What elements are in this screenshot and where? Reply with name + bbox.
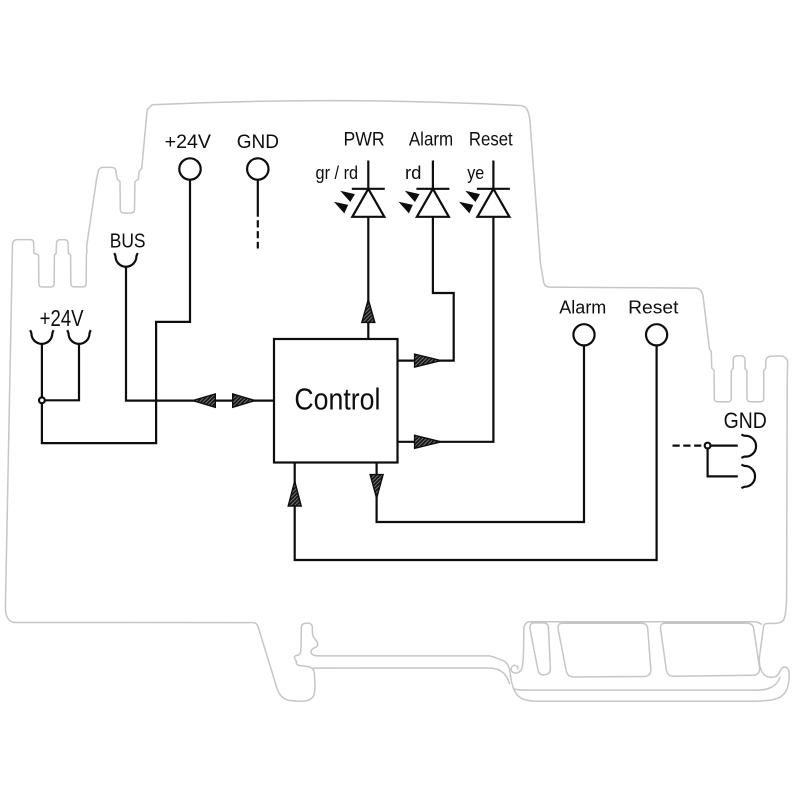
svg-text:BUS: BUS bbox=[110, 230, 146, 253]
svg-text:Alarm: Alarm bbox=[409, 129, 453, 150]
window A bbox=[530, 623, 551, 675]
wire GND right dashed bbox=[673, 445, 705, 447]
wire junction to left +24V terminal 1 bbox=[41, 344, 43, 398]
arrow right BUS bbox=[233, 394, 255, 407]
terminal arc BUS bbox=[114, 253, 138, 267]
arrow left BUS bbox=[193, 394, 215, 407]
svg-text:Reset: Reset bbox=[469, 128, 513, 149]
wire +24V top vertical bbox=[42, 180, 190, 443]
svg-text:Alarm: Alarm bbox=[559, 298, 606, 318]
svg-text:GND: GND bbox=[724, 409, 767, 434]
wire Reset LED path bbox=[492, 161, 494, 189]
svg-text:rd: rd bbox=[405, 162, 421, 183]
wire Reset terminal to Control bottom bbox=[295, 345, 657, 560]
bar bottom line under latch ledge bbox=[313, 668, 509, 684]
wire Alarm LED path bbox=[432, 161, 434, 189]
wire junction horizontal to terminal 2 bbox=[45, 344, 79, 401]
svg-text:PWR: PWR bbox=[344, 128, 385, 150]
foot block top edge with left spiral bbox=[511, 622, 761, 673]
wire GND top solid bbox=[257, 180, 259, 210]
window B bbox=[558, 623, 651, 677]
wire GND top dashed bbox=[257, 210, 259, 249]
arrow up on PWR line bbox=[362, 300, 375, 323]
LED PWR bbox=[334, 189, 385, 217]
window C bbox=[661, 623, 760, 676]
svg-text:Reset: Reset bbox=[628, 297, 679, 317]
svg-text:+24V: +24V bbox=[40, 306, 85, 332]
terminal arc +24V left 2 bbox=[67, 330, 91, 344]
skid inner top edge bbox=[514, 677, 780, 690]
svg-text:+24V: +24V bbox=[165, 131, 211, 153]
svg-text:ye: ye bbox=[467, 162, 484, 183]
LED Alarm bbox=[399, 189, 450, 217]
arrow down Alarm out bbox=[370, 475, 383, 499]
terminal circle GND top bbox=[247, 158, 268, 179]
arrow up Reset in bbox=[288, 481, 301, 506]
wire PWR LED anode down to Control bbox=[367, 161, 369, 189]
svg-text:gr / rd: gr / rd bbox=[316, 162, 358, 183]
wire Control bottom to Alarm terminal bbox=[377, 345, 584, 522]
control box U1 bbox=[274, 339, 398, 463]
LED Reset bbox=[459, 189, 510, 217]
housing outline (gray module silhouette) bbox=[5, 101, 789, 702]
terminal arc +24V left 1 bbox=[30, 330, 53, 344]
junction node +24V left bbox=[39, 397, 45, 403]
junction node GND right bbox=[705, 443, 711, 449]
black circuit bbox=[42, 161, 738, 561]
terminal circle Alarm right bbox=[573, 324, 594, 345]
terminal arc GND right 2 bbox=[741, 465, 755, 489]
terminal circle Reset right bbox=[646, 324, 667, 345]
terminal arc GND right 1 bbox=[741, 434, 756, 458]
arrow right Control out1 bbox=[415, 354, 441, 367]
arrow right Control out2 bbox=[415, 435, 441, 448]
svg-text:Control: Control bbox=[294, 382, 380, 416]
wire GND right solid bbox=[710, 445, 737, 447]
terminal circle +24V top bbox=[179, 158, 200, 179]
wire BUS vertical and horizontal to Control bbox=[126, 267, 274, 401]
svg-text:GND: GND bbox=[237, 132, 279, 153]
